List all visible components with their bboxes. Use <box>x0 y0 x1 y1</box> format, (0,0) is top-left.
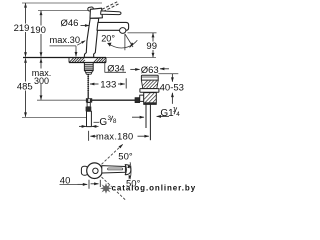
hose end width arrows <box>79 125 86 127</box>
dimension 40-53 <box>158 73 178 75</box>
dimension max300 line <box>40 58 42 60</box>
faucet lever knob <box>88 7 94 11</box>
rod clevis connector <box>86 98 92 102</box>
drain tailpipe <box>145 104 147 128</box>
hose neck <box>87 103 90 107</box>
dimension 133 right tick <box>125 78 127 88</box>
deck slab right extension (for 99) <box>106 57 156 59</box>
top view: swing arc <box>130 162 131 179</box>
top view: lower 50 dashed line <box>102 177 126 200</box>
top view: 40 inner arrow <box>91 183 99 185</box>
svg-text:219: 219 <box>14 23 30 34</box>
svg-text:99: 99 <box>146 41 157 52</box>
svg-text:8: 8 <box>113 118 117 125</box>
deck left edge <box>68 58 70 63</box>
20 degree arc <box>108 40 138 48</box>
hose lower section <box>87 111 92 126</box>
shank nut taper <box>85 71 93 75</box>
svg-text:Ø46: Ø46 <box>61 18 79 29</box>
dimension 219 extension line top <box>22 2 102 4</box>
faucet cartridge housing <box>90 8 102 18</box>
deck hatching left <box>69 58 85 63</box>
faucet lever raised dashed <box>98 2 117 12</box>
label max.180 <box>88 131 90 141</box>
dimension 485 extension line bottom <box>22 117 86 119</box>
svg-text:50°: 50° <box>118 152 133 163</box>
svg-text:G: G <box>99 117 107 128</box>
shank below deck <box>84 63 93 71</box>
dimension 219 line <box>25 3 27 4</box>
svg-text:485: 485 <box>17 82 33 93</box>
top view: spout nub left <box>81 166 88 175</box>
svg-text:Ø63: Ø63 <box>141 65 159 76</box>
top view: 40 tick right <box>99 180 101 187</box>
top view: body circle <box>87 163 103 179</box>
dimension 99 label <box>146 42 159 51</box>
dimension max300 extension line bottom / pop-up rod horizontal <box>37 99 92 101</box>
pop-up rod lower part <box>87 91 89 98</box>
svg-text:catalog.onliner.by: catalog.onliner.by <box>112 184 197 193</box>
svg-text:max.180: max.180 <box>96 131 133 141</box>
drain side port <box>140 95 144 101</box>
drain flange top hat <box>141 75 158 80</box>
top view: lever bar <box>102 166 126 173</box>
rod-drain joint block <box>135 98 140 103</box>
svg-text:4: 4 <box>176 111 180 118</box>
deck slab bottom line <box>69 62 106 64</box>
faucet body column <box>84 18 99 57</box>
faucet lever bar <box>101 11 121 15</box>
pop-up rod below deck <box>87 74 89 91</box>
dimension 133 <box>90 83 99 85</box>
dimension max300 label <box>31 69 52 85</box>
dimension 190 extension line <box>38 10 90 12</box>
svg-text:40-53: 40-53 <box>160 83 184 94</box>
dimension 99 line <box>152 33 154 34</box>
svg-text:190: 190 <box>30 25 46 36</box>
hose nut <box>86 107 92 112</box>
dimension 219 label <box>13 24 30 33</box>
top view: lever slot <box>108 168 123 170</box>
faucet spout <box>97 22 129 30</box>
svg-text:133: 133 <box>100 79 116 90</box>
svg-text:20°: 20° <box>101 34 115 44</box>
dimension 99 extension line <box>128 32 157 34</box>
dimension 485 label <box>17 82 34 91</box>
top view: lever end cap <box>125 165 131 175</box>
deck hatching right <box>94 58 106 63</box>
aerator <box>120 28 126 34</box>
water stream angled line <box>125 34 133 47</box>
top view: 40 tick left <box>88 180 90 189</box>
label G3/8 <box>94 121 100 123</box>
dimension 485 line <box>25 58 27 60</box>
drain flange cone <box>141 80 158 88</box>
label G1 1/4 arrows <box>132 116 144 118</box>
water stream vertical line <box>124 34 126 51</box>
deck right edge <box>105 58 107 63</box>
top view: upper 50 dashed line <box>102 147 121 165</box>
pop-up rod horizontal link <box>92 99 135 101</box>
drain body <box>144 93 157 105</box>
drain lower flange <box>140 89 159 93</box>
svg-text:300: 300 <box>34 76 49 86</box>
svg-text:max.30: max.30 <box>50 35 81 45</box>
top view: cartridge circle <box>93 168 98 173</box>
dimension D63 <box>130 68 139 70</box>
watermark badge <box>100 183 112 194</box>
dimension 190 line <box>40 11 42 12</box>
dimension 190 label <box>30 26 47 35</box>
deck slab top line <box>23 57 106 59</box>
